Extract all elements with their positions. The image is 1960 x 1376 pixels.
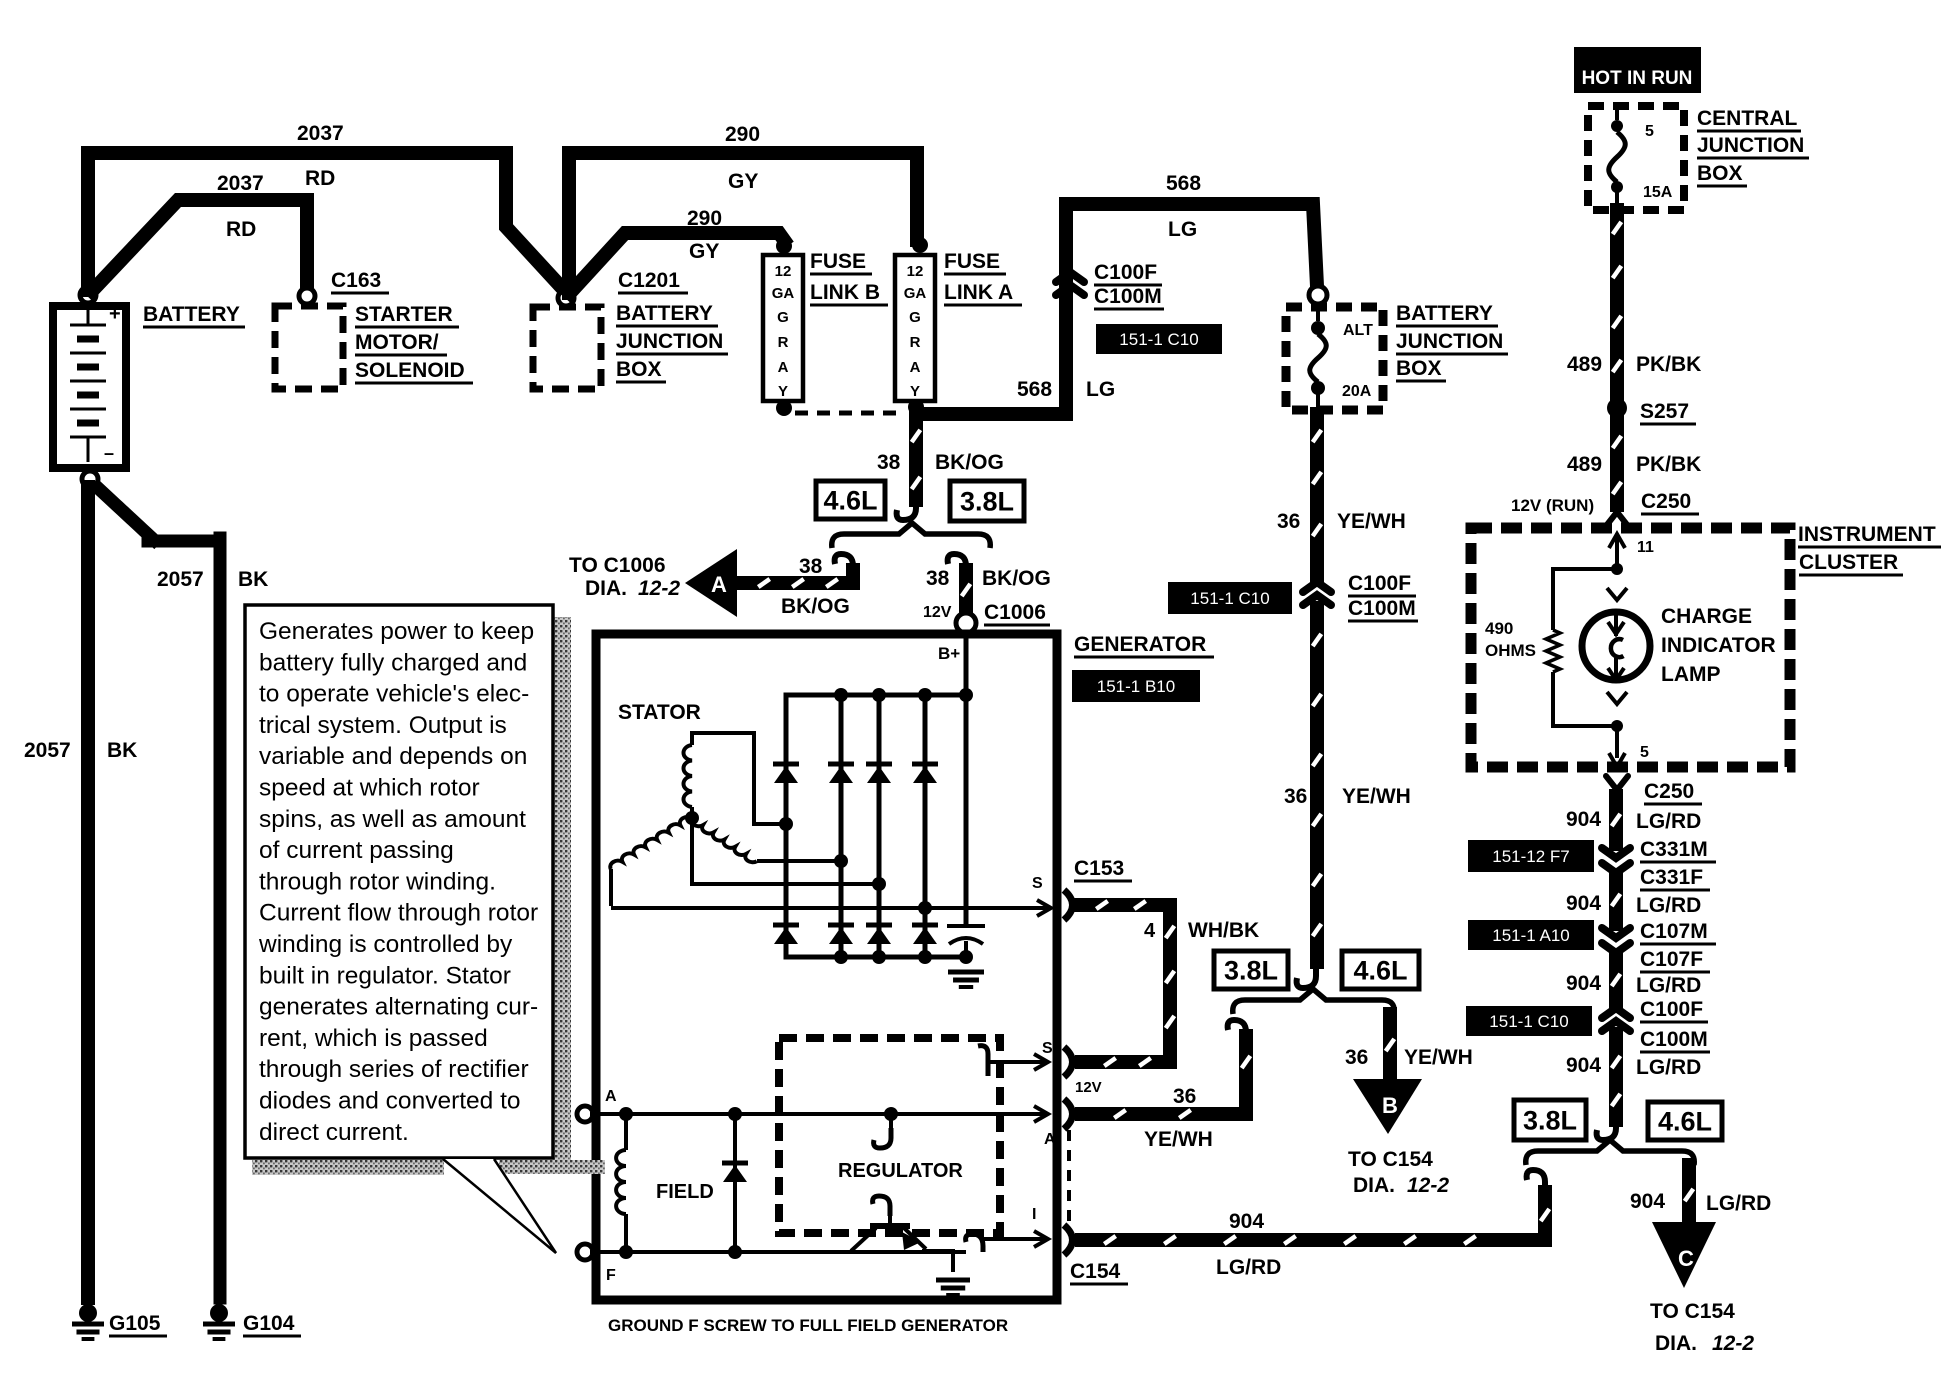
svg-text:C154: C154 — [1070, 1260, 1121, 1283]
wire 2037 RD upper (battery to C1201) — [88, 153, 563, 290]
svg-text:YE/WH: YE/WH — [1342, 785, 1411, 808]
stator junction dot col4 — [918, 901, 932, 915]
callout box 151-1 C10 (36 wire) — [1168, 582, 1292, 614]
svg-text:battery fully charged and: battery fully charged and — [259, 649, 527, 676]
svg-text:G105: G105 — [109, 1312, 161, 1335]
pigtail 36 wire end — [1297, 966, 1316, 988]
svg-text:38: 38 — [877, 451, 901, 474]
fuse link B top terminal — [776, 238, 792, 254]
svg-text:C250: C250 — [1644, 780, 1694, 803]
svg-text:DIA.: DIA. — [585, 577, 627, 600]
battery junction box (C1201) — [533, 307, 601, 389]
svg-text:GY: GY — [689, 240, 719, 263]
svg-text:LG/RD: LG/RD — [1706, 1192, 1771, 1215]
connector C331M/C331F — [1602, 848, 1630, 858]
wire 2057 BK dashed (battery to G104) — [98, 488, 154, 540]
connector chevron C154 A — [1064, 1099, 1073, 1129]
lamp lead break upper — [1607, 588, 1627, 600]
svg-text:JUNCTION: JUNCTION — [1396, 330, 1503, 353]
wire rectifier top bus — [786, 693, 966, 698]
svg-text:through rotor winding.: through rotor winding. — [259, 868, 496, 895]
svg-text:BOX: BOX — [1396, 357, 1442, 380]
svg-text:C250: C250 — [1641, 490, 1691, 513]
svg-text:C331F: C331F — [1640, 866, 1703, 889]
fuse 5 15A — [1615, 106, 1619, 120]
svg-text:RD: RD — [305, 167, 335, 190]
svg-text:489: 489 — [1567, 353, 1602, 376]
wire F bus — [590, 1250, 966, 1254]
fuse link A body — [895, 255, 935, 401]
svg-text:F: F — [606, 1267, 616, 1284]
svg-text:12-2: 12-2 — [1712, 1332, 1754, 1355]
svg-text:OHMS: OHMS — [1485, 641, 1536, 660]
svg-text:B: B — [1382, 1093, 1398, 1118]
svg-text:151-1 B10: 151-1 B10 — [1097, 677, 1175, 696]
dashed splice wire fuse link B to A — [795, 411, 905, 416]
svg-text:ALT: ALT — [1343, 322, 1373, 339]
svg-text:38: 38 — [799, 555, 823, 578]
svg-text:YE/WH: YE/WH — [1144, 1128, 1213, 1151]
wire 904 LG/RD horizontal — [1082, 1192, 1545, 1240]
svg-text:11: 11 — [1637, 539, 1654, 556]
svg-text:G104: G104 — [243, 1312, 295, 1335]
diode D5 lower — [773, 923, 799, 928]
svg-text:151-1 C10: 151-1 C10 — [1489, 1012, 1568, 1031]
svg-text:RD: RD — [226, 218, 256, 241]
svg-text:WH/BK: WH/BK — [1188, 919, 1259, 942]
svg-text:B+: B+ — [938, 644, 960, 663]
pigtail end of 38 wire — [897, 498, 916, 520]
hook 3.8L branch 36 — [1228, 1020, 1246, 1042]
stator center junction — [685, 811, 699, 825]
hook right branch 38 — [948, 554, 966, 576]
capacitor C (suppression) — [947, 924, 985, 928]
svg-text:A: A — [605, 1088, 617, 1105]
svg-text:C107F: C107F — [1640, 948, 1703, 971]
svg-text:YE/WH: YE/WH — [1404, 1046, 1473, 1069]
svg-text:C1006: C1006 — [984, 601, 1046, 624]
svg-text:S257: S257 — [1640, 400, 1689, 423]
svg-text:Current flow through rotor: Current flow through rotor — [259, 900, 538, 927]
svg-text:12: 12 — [907, 263, 924, 280]
wire 290 GY lower (C1201 to fuse link B) — [570, 233, 784, 293]
wire transistor emitter to ground — [922, 1251, 953, 1272]
connector fork C250 top — [1606, 504, 1628, 526]
wire 38 BK/OG to C1006 — [959, 570, 973, 610]
diode D1 upper — [773, 762, 799, 767]
hook left branch 38 — [835, 554, 853, 576]
regulator S hook — [978, 1046, 988, 1076]
wire 904 LG/RD seg2 — [1609, 876, 1623, 924]
note callout tail — [443, 1159, 556, 1253]
svg-text:LG/RD: LG/RD — [1636, 1056, 1701, 1079]
svg-text:4.6L: 4.6L — [823, 486, 877, 516]
battery negative terminal — [82, 471, 98, 487]
svg-text:trical system. Output is: trical system. Output is — [259, 712, 507, 739]
stator center tap wire — [692, 818, 876, 884]
svg-text:spins, as well as amount: spins, as well as amount — [259, 806, 526, 833]
diode D4 upper — [912, 762, 938, 767]
svg-text:FIELD: FIELD — [656, 1181, 714, 1203]
svg-text:36: 36 — [1345, 1046, 1368, 1069]
svg-text:C107M: C107M — [1640, 920, 1708, 943]
svg-text:speed at which rotor: speed at which rotor — [259, 775, 480, 802]
connector C1201 terminal — [558, 290, 574, 306]
svg-text:CLUSTER: CLUSTER — [1799, 551, 1898, 574]
wire 904 LG/RD seg4 — [1609, 1034, 1623, 1120]
svg-text:3.8L: 3.8L — [960, 487, 1014, 517]
svg-text:STATOR: STATOR — [618, 701, 701, 724]
svg-text:C100M: C100M — [1094, 285, 1162, 308]
svg-text:JUNCTION: JUNCTION — [1697, 134, 1804, 157]
svg-text:568: 568 — [1166, 172, 1201, 195]
svg-text:STARTER: STARTER — [355, 303, 453, 326]
svg-text:LG/RD: LG/RD — [1636, 810, 1701, 833]
battery positive terminal — [80, 287, 96, 303]
svg-text:REGULATOR: REGULATOR — [838, 1160, 963, 1182]
hook 3.8L branch 904 — [1527, 1170, 1545, 1192]
connector C100F/C100M arrow on 568 wire — [1056, 272, 1084, 282]
svg-text:BK/OG: BK/OG — [935, 451, 1004, 474]
engine option box 3.8L (right) — [1514, 1100, 1586, 1140]
transistor Q1 (regulator) — [888, 1216, 892, 1224]
wire 36 YE/WH to B arrow — [1383, 1014, 1397, 1079]
starter motor/solenoid box (C163) — [275, 306, 343, 389]
svg-text:BATTERY: BATTERY — [616, 302, 713, 325]
svg-text:12-2: 12-2 — [1407, 1174, 1449, 1197]
svg-text:LINK B: LINK B — [810, 281, 880, 304]
svg-text:151-1 A10: 151-1 A10 — [1492, 926, 1570, 945]
svg-text:INSTRUMENT: INSTRUMENT — [1798, 523, 1936, 546]
svg-text:489: 489 — [1567, 453, 1602, 476]
svg-text:–: – — [104, 443, 114, 463]
callout box 151-12 F7 — [1468, 840, 1594, 872]
svg-text:904: 904 — [1566, 808, 1601, 831]
stator junction dot col1 — [779, 817, 793, 831]
connector chevron C153 S lower — [1064, 1047, 1073, 1077]
diode D6 lower — [828, 923, 854, 928]
fuse link B body — [763, 255, 803, 401]
svg-text:LG/RD: LG/RD — [1216, 1256, 1281, 1279]
svg-text:INDICATOR: INDICATOR — [1661, 634, 1776, 657]
regulator box outline — [779, 1038, 1000, 1233]
charge indicator lamp — [1582, 612, 1650, 680]
svg-text:LAMP: LAMP — [1661, 663, 1721, 686]
svg-text:LG: LG — [1168, 218, 1197, 241]
svg-text:GY: GY — [728, 170, 758, 193]
pigtail 904 chain end — [1597, 1118, 1616, 1140]
off-page arrow B (TO C154) — [1353, 1079, 1422, 1134]
svg-text:BATTERY: BATTERY — [1396, 302, 1493, 325]
stator junction dot col2 — [834, 854, 848, 868]
svg-text:C100F: C100F — [1348, 572, 1411, 595]
svg-text:C100M: C100M — [1640, 1028, 1708, 1051]
svg-text:GA: GA — [904, 285, 927, 302]
svg-text:C100F: C100F — [1094, 261, 1157, 284]
stator winding vertical coil — [683, 745, 692, 807]
svg-text:C163: C163 — [331, 269, 381, 292]
svg-text:12V: 12V — [1075, 1079, 1102, 1096]
svg-text:BK: BK — [238, 568, 268, 591]
svg-text:BK: BK — [107, 739, 137, 762]
diode D8 lower — [912, 923, 938, 928]
svg-text:MOTOR/: MOTOR/ — [355, 331, 439, 354]
svg-text:3.8L: 3.8L — [1523, 1106, 1577, 1136]
connector C100F/C100M (904 chain) — [1602, 1008, 1630, 1018]
field bus dots — [619, 1107, 633, 1121]
svg-text:290: 290 — [687, 207, 722, 230]
svg-text:12: 12 — [775, 263, 792, 280]
connector C107M/C107F — [1602, 928, 1630, 938]
diode D3 upper — [866, 762, 892, 767]
callout box 151-1 C10 (904 chain) — [1466, 1006, 1592, 1036]
svg-text:A: A — [711, 572, 727, 597]
svg-text:151-1 C10: 151-1 C10 — [1119, 330, 1198, 349]
svg-text:3.8L: 3.8L — [1224, 956, 1278, 986]
central junction box — [1588, 106, 1684, 210]
svg-text:G: G — [909, 309, 921, 326]
svg-text:winding is controlled by: winding is controlled by — [258, 931, 513, 958]
svg-text:12-2: 12-2 — [638, 577, 680, 600]
connector chevron C153 S — [1064, 890, 1073, 920]
instrument cluster box — [1471, 528, 1790, 767]
svg-text:904: 904 — [1566, 892, 1601, 915]
svg-text:GENERATOR: GENERATOR — [1074, 633, 1206, 656]
terminal ALT fuse top — [1309, 286, 1327, 304]
off-page arrow A (TO C1006) — [685, 549, 737, 617]
svg-text:I: I — [1032, 1206, 1036, 1223]
svg-text:C100F: C100F — [1640, 998, 1703, 1021]
wire S output (stator) — [611, 906, 1048, 910]
callout box 151-1 C10 (568 wire) — [1096, 324, 1222, 354]
svg-text:direct current.: direct current. — [259, 1119, 409, 1146]
svg-text:5: 5 — [1645, 123, 1654, 140]
junction dot lamp top — [1611, 563, 1623, 575]
connector C100F/C100M arrow (36 wire) — [1303, 582, 1331, 592]
svg-text:5: 5 — [1640, 744, 1649, 761]
wire 2057 BK solid (battery to G105) — [81, 487, 95, 1298]
wire regulator S output — [988, 1060, 1044, 1064]
svg-text:S: S — [1032, 875, 1043, 892]
svg-text:DIA.: DIA. — [1655, 1332, 1697, 1355]
regulator base hook — [873, 1196, 890, 1216]
svg-text:S: S — [1042, 1040, 1053, 1057]
fuse link A bottom junction — [908, 399, 924, 415]
wire 290 GY upper (C1201 to fuse link A) — [569, 153, 917, 293]
svg-text:Generates power to keep: Generates power to keep — [259, 618, 534, 645]
cluster pin 5 arrow — [1615, 726, 1619, 758]
wire 36 YE/WH lower — [1310, 608, 1324, 962]
callout box 151-1 B10 — [1072, 670, 1200, 702]
svg-text:PK/BK: PK/BK — [1636, 353, 1701, 376]
rectifier column 4 — [923, 695, 928, 957]
svg-text:C: C — [1678, 1246, 1694, 1271]
svg-text:904: 904 — [1229, 1210, 1264, 1233]
svg-text:490: 490 — [1485, 619, 1513, 638]
rectifier column 2 — [839, 695, 844, 957]
svg-text:GA: GA — [772, 285, 795, 302]
stator winding left coil — [610, 817, 692, 869]
svg-text:to operate vehicle's elec-: to operate vehicle's elec- — [259, 681, 529, 708]
svg-text:TO C154: TO C154 — [1650, 1300, 1735, 1323]
stator junction dot col3 — [872, 877, 886, 891]
field winding coil — [624, 1114, 628, 1150]
svg-text:C100M: C100M — [1348, 597, 1416, 620]
junction dots top bus — [834, 688, 848, 702]
svg-text:Y: Y — [910, 383, 920, 400]
svg-text:CHARGE: CHARGE — [1661, 605, 1752, 628]
svg-text:A: A — [910, 359, 921, 376]
fuse link B bottom terminal — [776, 400, 792, 416]
svg-text:BOX: BOX — [1697, 162, 1743, 185]
splice S257 — [1607, 398, 1627, 418]
svg-text:LG/RD: LG/RD — [1636, 894, 1701, 917]
regulator A hook — [889, 1114, 893, 1130]
wire 2037 RD lower (battery to C163) — [92, 200, 307, 292]
connector C163 terminal — [299, 288, 315, 304]
engine option box 3.8L (mid) — [1214, 951, 1288, 989]
cluster pin 11 arrow — [1615, 534, 1619, 566]
svg-text:LG: LG — [1086, 378, 1115, 401]
connector fork C250 bottom — [1606, 776, 1628, 798]
svg-text:C331M: C331M — [1640, 838, 1708, 861]
svg-text:TO C154: TO C154 — [1348, 1148, 1433, 1171]
terminal A (generator) — [577, 1106, 593, 1122]
svg-text:TO C1006: TO C1006 — [569, 554, 666, 577]
rectifier column 3 — [877, 695, 882, 957]
regulator I hook — [966, 1234, 983, 1252]
split bracket 36 YE/WH — [1233, 989, 1395, 1014]
wire 4 WH/BK loop — [1080, 905, 1170, 1062]
svg-text:151-12 F7: 151-12 F7 — [1492, 847, 1570, 866]
svg-text:290: 290 — [725, 123, 760, 146]
junction dots bottom bus — [834, 950, 848, 964]
callout box 151-1 A10 — [1468, 920, 1594, 950]
svg-text:A: A — [1044, 1131, 1056, 1148]
ground G104 — [210, 1304, 228, 1322]
split bracket 904 LG/RD — [1526, 1140, 1695, 1165]
svg-text:DIA.: DIA. — [1353, 1174, 1395, 1197]
generator description note — [553, 617, 571, 1162]
connector chevron C154 I — [1064, 1225, 1073, 1255]
svg-text:36: 36 — [1284, 785, 1307, 808]
svg-text:R: R — [910, 334, 921, 351]
svg-text:4.6L: 4.6L — [1353, 956, 1407, 986]
svg-text:2057: 2057 — [24, 739, 71, 762]
ground symbol (regulator) — [936, 1278, 970, 1283]
svg-text:568: 568 — [1017, 378, 1052, 401]
svg-text:36: 36 — [1277, 510, 1300, 533]
terminal F (generator) — [577, 1244, 593, 1260]
ground G105 — [79, 1304, 97, 1322]
svg-text:FUSE: FUSE — [810, 250, 866, 273]
svg-text:904: 904 — [1566, 972, 1601, 995]
off-page arrow C (TO C154) — [1652, 1222, 1716, 1288]
svg-text:15A: 15A — [1643, 184, 1673, 201]
svg-text:36: 36 — [1173, 1085, 1196, 1108]
engine option box 3.8L (left) — [950, 481, 1024, 521]
svg-text:151-1 C10: 151-1 C10 — [1190, 589, 1269, 608]
wire 38 BK/OG to A arrow — [742, 570, 853, 583]
svg-text:PK/BK: PK/BK — [1636, 453, 1701, 476]
lamp lead break lower — [1607, 692, 1627, 704]
wire B+ vertical — [964, 633, 969, 926]
wire 36 YE/WH upper — [1310, 414, 1324, 576]
wire 489 PK/BK upper — [1610, 210, 1624, 399]
svg-text:CENTRAL: CENTRAL — [1697, 107, 1797, 130]
diode D7 lower — [866, 923, 892, 928]
engine option box 4.6L (left) — [816, 481, 885, 519]
wire rectifier bottom bus — [786, 955, 966, 960]
svg-text:JUNCTION: JUNCTION — [616, 330, 723, 353]
svg-text:2037: 2037 — [297, 122, 344, 145]
split bracket 38 BK/OG — [832, 523, 991, 548]
svg-text:built in regulator. Stator: built in regulator. Stator — [259, 962, 511, 989]
engine option box 4.6L (mid) — [1342, 951, 1419, 989]
svg-text:BATTERY: BATTERY — [143, 303, 240, 326]
engine option box 4.6L (right) — [1648, 1102, 1722, 1140]
svg-text:GROUND F SCREW TO FULL FIELD G: GROUND F SCREW TO FULL FIELD GENERATOR — [608, 1316, 1008, 1335]
svg-text:SOLENOID: SOLENOID — [355, 359, 465, 382]
fuse ALT 20A — [1316, 304, 1320, 321]
wire 489 PK/BK lower — [1610, 417, 1624, 505]
field diode — [733, 1114, 737, 1252]
svg-text:BK/OG: BK/OG — [982, 567, 1051, 590]
dashed connector line C154 — [1067, 1130, 1071, 1224]
svg-text:FUSE: FUSE — [944, 250, 1000, 273]
svg-text:A: A — [778, 359, 789, 376]
svg-text:YE/WH: YE/WH — [1337, 510, 1406, 533]
wire 38 BK/OG (fuse link A down) — [909, 411, 923, 500]
svg-text:4: 4 — [1144, 920, 1156, 942]
svg-text:2037: 2037 — [217, 172, 264, 195]
svg-text:rent, which is passed: rent, which is passed — [259, 1025, 488, 1052]
resistor 490 ohms — [1553, 569, 1617, 630]
svg-text:BK/OG: BK/OG — [781, 595, 850, 618]
wire A bus — [590, 1112, 1044, 1116]
svg-text:12V: 12V — [923, 604, 952, 621]
wire I output — [983, 1237, 1044, 1241]
svg-text:diodes and converted to: diodes and converted to — [259, 1088, 521, 1115]
svg-text:LG/RD: LG/RD — [1636, 974, 1701, 997]
svg-text:38: 38 — [926, 567, 950, 590]
battery B1 — [53, 306, 126, 468]
svg-text:12V (RUN): 12V (RUN) — [1511, 496, 1594, 515]
svg-text:20A: 20A — [1342, 383, 1372, 400]
wire 36 YE/WH to generator A — [1082, 1036, 1246, 1114]
wire 568 LG (fuse link A to ALT fuse) — [916, 204, 1317, 414]
fuse link A top terminal — [912, 237, 928, 253]
svg-text:R: R — [778, 334, 789, 351]
wire 904 LG/RD seg3 — [1609, 956, 1623, 1002]
battery junction box (ALT) — [1286, 307, 1383, 410]
svg-text:+: + — [109, 303, 121, 325]
svg-text:4.6L: 4.6L — [1658, 1107, 1712, 1137]
junction dot lamp bottom — [1611, 720, 1623, 732]
hot in run tag — [1574, 47, 1701, 93]
rectifier column 1 — [784, 695, 789, 957]
svg-text:of current passing: of current passing — [259, 837, 454, 864]
svg-text:HOT IN RUN: HOT IN RUN — [1582, 68, 1693, 89]
svg-text:C153: C153 — [1074, 857, 1124, 880]
svg-text:2057: 2057 — [157, 568, 204, 591]
svg-text:variable and depends on: variable and depends on — [259, 743, 527, 770]
svg-text:BOX: BOX — [616, 358, 662, 381]
svg-text:G: G — [777, 309, 789, 326]
svg-text:C1201: C1201 — [618, 269, 680, 292]
svg-text:generates alternating cur-: generates alternating cur- — [259, 994, 538, 1021]
svg-text:Y: Y — [778, 383, 788, 400]
